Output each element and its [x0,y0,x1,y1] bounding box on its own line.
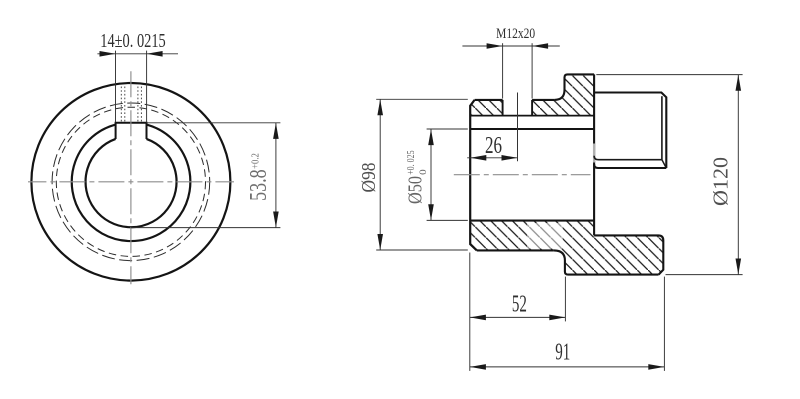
dimension Ø98: dim line + arrows [379,99,381,250]
svg-text:Ø50: Ø50 [404,176,426,204]
dimension 91: extension line right [663,277,665,371]
svg-text:+0.2: +0.2 [249,153,261,169]
dimension text Ø50 +0.025/0 (rotated) [404,150,429,204]
outline: keyway floor line [470,115,594,117]
left view: middle circle with keyway gap [72,125,191,242]
boss: outer bottom line B with left fillet [594,164,666,168]
dimension Ø50: dim line + arrows [430,129,432,220]
dimension 91: dim line + arrows [470,366,664,368]
section hatch: lower region [470,221,663,275]
boss: top edge and right chamfered end [594,93,666,169]
boss: inner chamfer vertical line [661,96,663,160]
outline: flange bottom-right chamfer and right face of lower block [594,235,663,274]
left view: hidden tapped-hole lines (dotted) [120,87,122,123]
boss: inner bottom line A with left fillet [594,156,662,160]
svg-text:+0. 025: +0. 025 [406,150,417,174]
svg-text:91: 91 [555,340,570,366]
dimension 53.8: dim line and arrows [275,123,277,228]
outline: flange left fillet, face and top edge [554,74,594,100]
svg-text:0: 0 [419,169,429,175]
dimension Ø120: extension lines [596,74,742,76]
boss: small diagonal at lower-right chamfer [662,160,666,168]
svg-text:52: 52 [512,291,527,317]
watermark gray segment on flange face [593,144,595,163]
M12 hole side lines [502,100,504,116]
dimension M12x20: extension lines [502,43,504,98]
section hatch: upper band right part + flange top [532,74,594,115]
outline: flange right face [593,74,595,235]
dimension 14±0.0215: extension lines [115,51,117,123]
dimension Ø98: extension lines [376,98,468,100]
outline: bore bottom line [470,220,594,222]
svg-text:26: 26 [485,133,502,159]
section hatch: upper-left band [470,100,502,116]
left view: hidden dashed circle [56,107,205,256]
left view: horizontal centerline [28,181,234,183]
dimension text Ø98 (rotated) [359,163,380,193]
svg-text:Ø98: Ø98 [359,163,380,193]
watermark light wash over hatch [527,223,563,248]
outline: flange bottom-left fillet, face, bottom edge [554,250,659,274]
M12 hole centerline [517,93,519,162]
outline: Ø98 top edge (split by M12 hole) [475,99,503,101]
dimension 14±0.0215: dim line and arrows [97,53,178,55]
dimension text Ø120 (rotated) [708,157,732,206]
left view: bore circle with keyway gap [86,139,177,227]
svg-text:M12x20: M12x20 [496,26,535,42]
svg-text:53.8: 53.8 [246,169,272,201]
outline: bore top line [470,128,594,130]
outline: Ø98 bottom edge [477,249,554,251]
svg-text:14±0. 0215: 14±0. 0215 [100,31,166,52]
dimension M12x20: dim line + outside arrows [462,45,559,47]
dimension text 53.8 +0.2 (rotated) [246,153,272,201]
left view: thin long-dash circle [52,103,210,261]
dimension 53.8: extension lines [147,122,281,124]
dimension 52: extension lines [469,253,471,371]
dimension Ø50: extension lines [427,128,468,130]
main axis centerline [454,174,591,176]
left view: vertical centerline [130,71,132,285]
left view: keyway slot [116,123,147,139]
dimension Ø120: dim line + arrows [737,75,739,275]
dimension 26: dim line + arrows [467,157,517,159]
dimension 52: dim line + arrows [470,316,565,318]
left view: outer flange circle [31,83,230,281]
svg-text:Ø120: Ø120 [708,157,732,206]
part outline: left face with chamfers [470,100,477,251]
